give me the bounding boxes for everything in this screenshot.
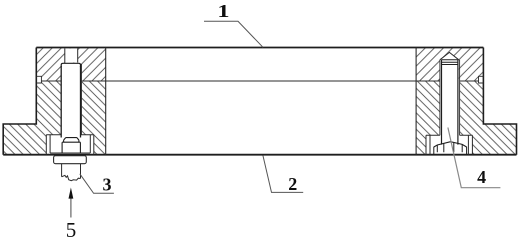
top plate outline top edge	[36, 47, 483, 49]
right counterbore walls	[426, 135, 472, 155]
right hex nut edges	[434, 142, 467, 154]
top plate 1 section hatch left	[36, 48, 105, 82]
stud 3 top end cap	[61, 63, 80, 67]
right tapped hole drill cone	[440, 52, 459, 59]
right washer	[430, 135, 468, 155]
right block inner wall	[415, 48, 417, 155]
svg-text:4: 4	[477, 167, 486, 187]
left support block section hatch	[3, 81, 106, 155]
left tapped hole slot above stud	[65, 49, 78, 63]
left hole clearance line	[81, 64, 83, 135]
left block outer edge	[3, 48, 36, 155]
right block outer edge	[483, 48, 516, 155]
leader line for label 2	[263, 155, 303, 192]
left block inner wall	[105, 48, 107, 155]
top plate 1 section hatch right	[416, 48, 483, 82]
left counterbore ceiling	[46, 134, 94, 136]
right support block section hatch	[416, 81, 516, 155]
right edge relief groove	[479, 76, 484, 83]
leader line for label 3	[80, 174, 114, 194]
label 5	[66, 218, 77, 242]
svg-text:5: 5	[66, 218, 77, 242]
label 1	[217, 1, 229, 21]
stud 3 lower end with break	[62, 164, 81, 181]
svg-text:2: 2	[288, 174, 297, 194]
parting line between plate and blocks	[41, 80, 478, 82]
bottom edge	[3, 154, 516, 156]
bolt 4 shaft	[442, 60, 458, 145]
leader line for label 4	[448, 128, 501, 188]
left nut chamfered top	[64, 138, 79, 143]
svg-text:1: 1	[217, 1, 229, 21]
label 4	[477, 167, 486, 187]
hex nut below plate	[54, 156, 87, 164]
left nut body	[62, 142, 80, 153]
right hole clearance lines	[440, 60, 460, 135]
right hex nut chamfer tent	[434, 142, 467, 147]
leader line for label 1	[204, 21, 263, 47]
label 3	[103, 174, 112, 194]
left washer	[50, 135, 90, 153]
svg-text:3: 3	[103, 174, 112, 194]
bolt 4 top end chamfer lines	[442, 60, 458, 65]
right counterbore ceiling	[426, 134, 472, 136]
label 2	[288, 174, 297, 194]
stud 3 shaft	[61, 66, 80, 138]
force arrow 5	[69, 188, 74, 218]
left counterbore walls	[46, 135, 94, 155]
left edge relief groove	[36, 76, 41, 83]
